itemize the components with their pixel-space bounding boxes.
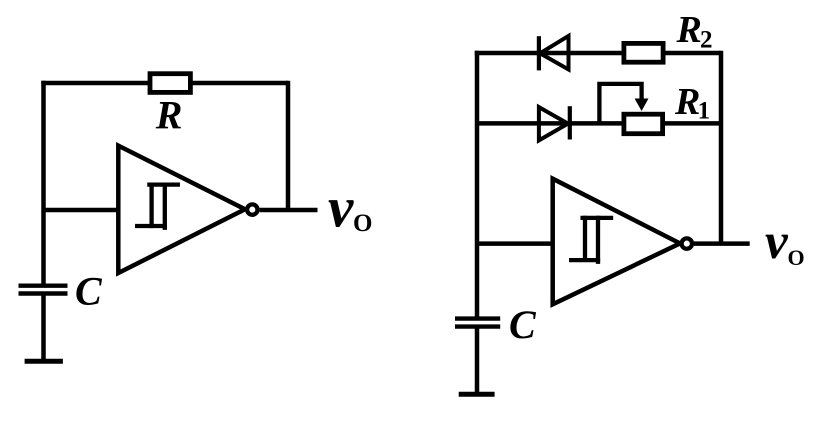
inversion bubble of U1	[247, 204, 257, 214]
diode D1 (pointing left) triangle	[540, 36, 569, 70]
wire: left vertical rail	[475, 51, 480, 317]
wiper arrowhead	[635, 99, 649, 112]
resistor R2	[624, 43, 663, 62]
diode D1 cathode bar	[537, 36, 541, 70]
capacitor C (plates)	[19, 284, 68, 288]
svg-text:2: 2	[700, 26, 713, 53]
svg-text:O: O	[788, 245, 805, 270]
wire: output wire	[694, 241, 750, 246]
diode D2 cathode bar	[568, 106, 572, 139]
svg-text:R: R	[155, 93, 183, 138]
wire: input wire to inverter	[44, 208, 119, 213]
hysteresis symbol of U2	[571, 218, 611, 262]
potentiometer R1 body	[624, 114, 663, 134]
resistor R	[150, 74, 190, 93]
wire: top feedback wire (left of resistor R)	[41, 81, 150, 86]
svg-text:R: R	[674, 81, 700, 123]
svg-text:C: C	[75, 268, 103, 313]
wire: capacitor to ground	[475, 328, 480, 394]
hysteresis symbol of U1	[137, 185, 178, 228]
wire: top branch right of R2	[666, 51, 722, 56]
wire: right vertical feedback drop	[286, 81, 291, 210]
wire: top branch through diode D1	[475, 51, 622, 56]
svg-text:1: 1	[698, 98, 711, 125]
op-amp U2 (Schmitt-trigger inverter triangle)	[553, 179, 680, 305]
inversion bubble of U2	[682, 238, 692, 248]
svg-text:R: R	[676, 9, 702, 51]
wire: capacitor to ground	[41, 295, 46, 361]
op-amp U1 (Schmitt-trigger inverter triangle)	[118, 146, 245, 273]
wire: left vertical rail	[41, 81, 46, 284]
wire: top feedback wire (right of resistor R)	[190, 81, 288, 86]
svg-text:C: C	[509, 302, 537, 347]
wire: second branch through diode D2	[477, 121, 622, 126]
svg-text:v: v	[765, 214, 789, 270]
wire: second branch right of R1	[665, 121, 721, 126]
wire: input wire to inverter	[477, 241, 553, 246]
diode D2 (pointing right) triangle	[539, 107, 568, 140]
svg-text:v: v	[328, 176, 354, 239]
capacitor C (plates)	[455, 316, 500, 320]
wire: right vertical rail	[719, 51, 724, 244]
svg-text:O: O	[353, 210, 372, 237]
wire: output wire	[260, 208, 318, 213]
ground	[25, 359, 63, 364]
ground	[459, 392, 495, 397]
wiper connection of R1	[599, 84, 641, 124]
